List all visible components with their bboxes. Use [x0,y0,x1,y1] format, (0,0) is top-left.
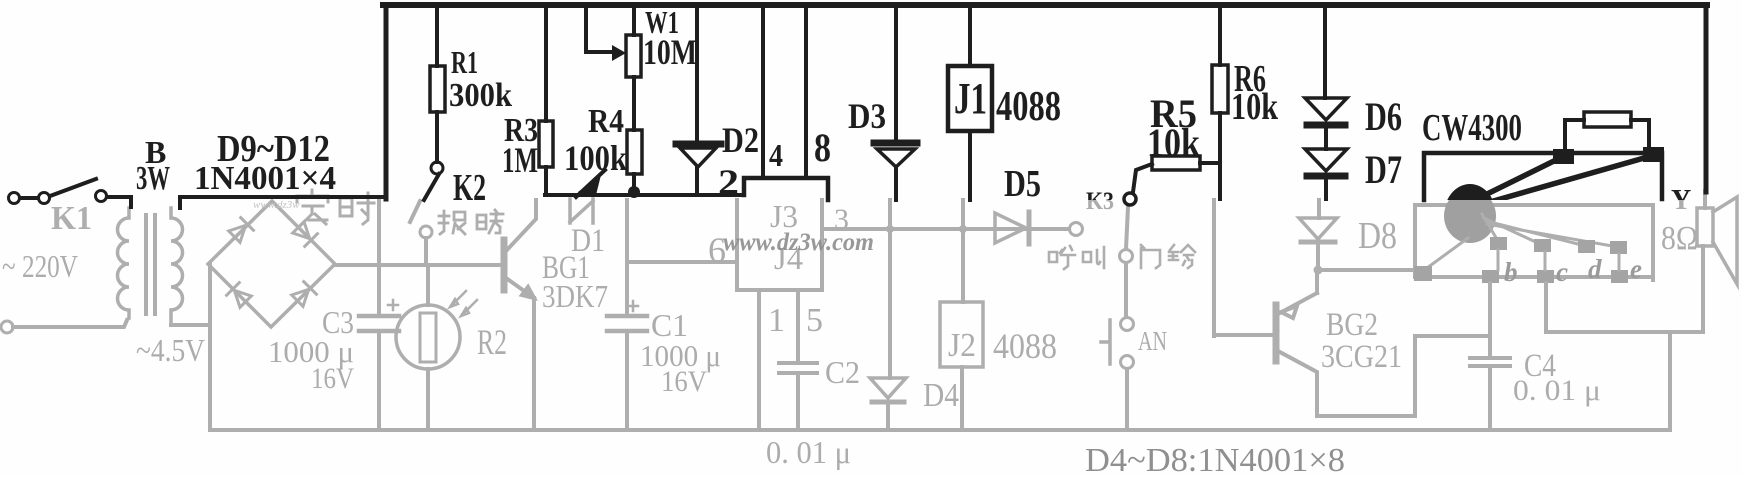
resistor R5 [1133,156,1220,192]
label R2 [477,322,507,362]
diode D7 [1305,149,1347,199]
svg-text:J2: J2 [948,327,976,364]
label ~220V [2,248,78,284]
svg-text:5: 5 [806,302,823,339]
label C4 value [1513,374,1601,407]
capacitor C4 column [1488,283,1492,430]
svg-text:D7: D7 [1365,147,1402,192]
diac D1 gray part [570,199,593,223]
wire AN down to rail [1125,369,1129,430]
label R6 10k [1231,58,1279,128]
svg-text:D8: D8 [1358,215,1397,257]
label C4 [1524,348,1556,384]
label K1 [51,200,92,237]
svg-text:BG2: BG2 [1326,307,1378,343]
transistor BG1 base bar [501,240,508,290]
label B 3W [136,134,170,197]
label pin d [1588,254,1602,284]
diode D5 [995,212,1029,244]
transformer B primary winding [118,208,129,318]
transformer B secondary winding [171,208,183,325]
label C2 [825,354,860,390]
transformer core [146,215,155,314]
label D2 [722,120,759,160]
label C3 value [268,334,354,395]
photoresistor R2 column upper [426,266,430,305]
label K3 gray [1086,188,1114,215]
label 呼叫 (call) [1049,246,1075,269]
label 4088 (J2) [993,326,1057,366]
label pin 2 [718,162,739,202]
svg-text:4088: 4088 [996,84,1061,130]
wire BG1 emitter down to rail [532,298,536,430]
label D7 [1365,147,1402,192]
svg-text:AN: AN [1138,326,1167,356]
wire secondary to bridge node [171,323,210,327]
label R4 100k [564,103,627,178]
label pin 6 [708,230,726,270]
diode D8 [1299,200,1337,270]
svg-text:J1: J1 [954,74,987,123]
ground rail bottom [210,428,1670,432]
label 定时 (timing) [297,190,328,226]
label pin 5 [806,302,823,339]
zener D3 [874,143,917,167]
svg-text:0. 01 μ: 0. 01 μ [766,434,851,470]
CW4300 box dark part [1424,153,1662,200]
svg-text:K1: K1 [51,200,92,237]
capacitor C2 [779,363,817,373]
wire D8 node to module left pad [1318,268,1416,272]
wire pin6 [627,260,737,264]
label Y dark part [1671,185,1691,216]
wire main left rail gray part [377,200,381,430]
diode D6 column [1325,8,1326,149]
svg-text:3W: 3W [136,160,170,197]
switch K3 upper contact [1124,193,1136,205]
R4 bottom junction [628,174,640,198]
svg-text:e: e [1630,254,1642,284]
switch K2 upper contact [431,162,443,174]
svg-text:R4: R4 [588,103,624,140]
capacitor C4 [1470,358,1510,366]
resistor R6 column [1218,8,1222,199]
label C3 [322,304,354,340]
svg-text:D4~D8:1N4001×8: D4~D8:1N4001×8 [1085,442,1345,477]
diode D4 [870,378,906,402]
label pin 3 [834,203,849,236]
label D6 [1365,94,1402,139]
switch K1 [9,179,107,204]
wire C1 column upper [625,200,629,430]
svg-text:100k: 100k [564,138,627,178]
svg-text:10k: 10k [1147,120,1201,165]
svg-text:300k: 300k [449,77,512,114]
wire pin 4 [761,8,765,176]
wire C2 down [796,373,800,430]
wire rail right end up [1668,332,1672,430]
label 8 ohm [1661,220,1698,257]
resistor R3 column [544,8,548,195]
label J4 [774,240,803,276]
label pin 1 [768,302,785,339]
resistor R6 [1212,65,1228,113]
bridge diode bottom-right [291,282,316,307]
wire bridge left corner down to ground rail [208,265,212,430]
junction dots pin3 line [886,225,967,233]
wire J1 to J2 column [961,200,965,302]
label D5 [1004,163,1041,205]
label R5 10k [1147,91,1201,165]
bridge rectifier D9-D12 diamond [208,201,335,327]
contact circle call [1070,223,1083,236]
diode D6 [1305,98,1347,125]
right rail vertical to speaker [1704,5,1709,192]
label ~4.5V [136,332,205,368]
CW4300 die blob gray [1444,189,1496,243]
wire pin5 down [796,290,800,363]
wire pin3 to call contact [822,227,1069,231]
label J1 [954,74,987,123]
label BG1 3DK7 [542,250,608,314]
label BG2 [1326,307,1378,343]
zener D2 column [695,8,699,194]
bond wires dark [1477,156,1651,204]
label 4088 (J1) [996,84,1061,130]
svg-text:1M: 1M [502,140,538,180]
svg-text:10k: 10k [1231,86,1279,128]
label R1 [449,44,512,114]
wire bridge right corner to BG1 base (V+ node) [335,263,502,267]
label 报晓 (daybreak) [439,211,465,234]
label 3CG21 [1321,339,1402,375]
label K3 dark part [1086,188,1114,215]
BG2 collector path [1278,336,1490,416]
label pin 4 [769,137,783,173]
svg-text:D4: D4 [923,377,959,414]
svg-text:R1: R1 [451,44,478,80]
svg-text:D3: D3 [848,96,886,136]
svg-text:www.dz3w.com: www.dz3w.com [723,229,874,256]
switch K2 lower contact [420,226,432,238]
label C1 [651,307,688,343]
bridge diode bottom-left [227,283,252,308]
label D8 [1358,215,1397,257]
wire BG2 base [1214,333,1272,337]
svg-text:10M: 10M [643,32,697,72]
capacitor C1 [607,301,647,331]
wire K2 contact down [424,238,428,265]
label K2 [453,167,486,209]
potentiometer W1 wiper feed [586,8,626,61]
svg-text:4: 4 [769,137,783,173]
label D4~D8:1N4001x8 [1085,442,1345,477]
label pin e [1630,254,1642,284]
svg-text:~4.5V: ~4.5V [136,332,205,368]
pad connector stubs [1498,250,1619,270]
svg-text:b: b [1504,257,1518,287]
wire R2 down to rail [426,369,430,430]
svg-text:16V: 16V [661,365,707,398]
IC J3/J4 box gray part [737,200,822,290]
BG2 emitter with arrow (PNP) [1278,293,1317,318]
wire R6 column gray [1212,200,1216,336]
wire terminal to transformer primary bottom [13,320,127,327]
switch K2 arm dark [424,174,439,200]
svg-text:8Ω: 8Ω [1661,220,1698,257]
speaker Y [1697,197,1737,284]
feedback loop resistor [1565,112,1649,153]
svg-text:C2: C2 [825,354,860,390]
resistor R1 [430,66,445,112]
bridge diode top-right [292,221,317,246]
label C2 value 0.01u [766,434,851,470]
label D1 [571,223,605,259]
svg-text:4088: 4088 [993,326,1057,366]
wire pin1 down [757,290,761,430]
potentiometer W1 [626,8,641,77]
label Y gray [1671,185,1691,216]
svg-text:8: 8 [814,125,831,170]
svg-text:d: d [1588,254,1602,284]
switch K3 arm gray [1126,207,1128,249]
svg-text:16V: 16V [311,362,354,395]
label J2 [948,327,976,364]
IC J3/J4 box dark top [744,178,828,200]
label D4 [923,377,959,414]
resistor R4 [627,130,642,174]
node wire bottom dark horizontal [545,193,744,197]
zener D3 column [894,8,898,200]
label pin b [1504,257,1518,287]
wire pin c down [1544,283,1548,332]
wire pin 8 [804,8,808,176]
bridge diode top-left [228,218,253,243]
resistor R4 column [632,77,636,130]
label AN [1138,326,1167,356]
push button AN [1101,318,1134,369]
wire K3 to AN [1124,263,1128,317]
label W1 10M [643,4,697,72]
svg-text:3DK7: 3DK7 [542,278,608,314]
label D3 [848,96,886,136]
svg-text:D6: D6 [1365,94,1402,139]
svg-text:D5: D5 [1004,163,1041,205]
svg-text:2: 2 [718,162,739,202]
wire c to speaker bottom [1546,246,1703,332]
module lower pads [1414,266,1628,283]
BG1 emitter with arrow [506,278,534,298]
svg-text:D2: D2 [722,120,759,160]
wire transformer secondary top / dc bracket [180,197,383,208]
module top pads dark [1553,147,1664,164]
label J3 [770,198,798,234]
svg-text:K2: K2 [453,167,486,209]
R2 light arrows [450,291,477,316]
IC J1 box [948,66,992,131]
svg-text:~ 220V: ~ 220V [2,248,78,284]
node D8/emitter junction [1314,266,1323,275]
wire D3/D4 column [888,200,890,430]
module upper pads [1490,237,1627,254]
speaker top lead [1703,191,1707,208]
svg-text:CW4300: CW4300 [1422,107,1522,149]
switch K2 lower arm [410,201,420,222]
label pin 8 [814,125,831,170]
zener D2 [676,144,721,167]
svg-text:c: c [1556,257,1568,287]
svg-text:R2: R2 [477,322,507,362]
IC J1 column [968,8,972,200]
photoresistor R2 [396,305,460,369]
CW4300 module box gray part [1415,205,1653,280]
svg-text:1N4001×4: 1N4001×4 [194,160,336,197]
switch K3 doorbell contact [1120,250,1133,263]
svg-text:3CG21: 3CG21 [1321,339,1402,375]
bond wires gray [1427,214,1618,268]
BG1 collector [506,200,536,251]
svg-text:1: 1 [768,302,785,339]
label R3 [502,112,538,180]
wire K1 to transformer [107,197,131,207]
capacitor C3 [359,300,399,331]
top power rail [383,2,1707,8]
left rail vertical [384,5,389,199]
label C1 value [640,338,721,398]
transistor BG2 base bar [1273,305,1280,361]
label 门铃 (doorbell) [1141,245,1160,268]
wire J2 down to rail [960,367,964,430]
diac D1 dark part [576,170,605,197]
svg-text:0. 01 μ: 0. 01 μ [1513,374,1601,407]
IC J2 box [940,302,983,367]
label D9~D12 [217,128,330,170]
resistor R1 column [435,8,439,162]
svg-text:www.dz3w: www.dz3w [253,199,300,211]
label pin c [1556,257,1568,287]
die blob dark cap [1444,184,1496,246]
wire BG2 emitter up to D8 node [1315,270,1319,293]
resistor R3 [539,121,553,167]
terminal lower-left [1,321,13,333]
label 1N4001x4 [194,160,336,197]
label CW4300 [1422,107,1522,149]
